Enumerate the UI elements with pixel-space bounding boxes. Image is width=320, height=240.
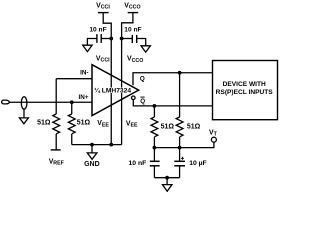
ground symbol (C2): [141, 46, 150, 52]
supply VCCO label: [124, 2, 140, 10]
wire GND stub: [91, 145, 93, 153]
supply VCCI bar: [98, 12, 109, 14]
wire VT rail: [154, 142, 214, 147]
wire Q node to R4: [179, 73, 181, 117]
polarity plus C4: [181, 157, 184, 159]
label VT: [209, 129, 218, 137]
comparator U1 triangle: [92, 65, 139, 116]
wire IN+ node to R2: [71, 102, 73, 114]
label device line2: [216, 89, 274, 96]
wire C3 bottom: [153, 166, 155, 178]
wire input line: [10, 101, 92, 103]
supply VCCO bar: [128, 12, 139, 14]
wire C2 right to ground: [137, 39, 146, 46]
terminal VT circle: [211, 137, 216, 142]
wire C3 top: [153, 148, 155, 162]
svg-text:10 nF: 10 nF: [129, 160, 147, 167]
wire VCCO pin line (node to VEE rail): [121, 39, 123, 145]
svg-text:DEVICE WITH: DEVICE WITH: [223, 81, 266, 88]
node IN+ junction: [70, 100, 74, 104]
wire C4 top: [179, 148, 181, 162]
wire C4 bottom: [179, 166, 181, 178]
resistor R4 51 Ohm: [176, 117, 183, 137]
capacitor C1 plates: [96, 34, 98, 43]
svg-text:¼ LMH7324: ¼ LMH7324: [94, 86, 131, 94]
node Q / R4: [178, 71, 182, 75]
wire ellipse to ground: [23, 109, 25, 118]
label 1/4 LMH7324: [94, 86, 131, 94]
label R2 51 Ohm: [77, 120, 91, 127]
node GND rail / VEE pin: [109, 143, 113, 147]
node bottom rail: [165, 176, 169, 180]
wire IN-: [56, 78, 92, 80]
label R3 51 Ohm: [161, 124, 175, 131]
pin label VEE (left): [97, 120, 109, 128]
ground symbol (GND): [87, 153, 97, 159]
wire Q tap: [133, 73, 213, 85]
resistor R1 51 Ohm: [53, 114, 60, 134]
svg-text:51Ω: 51Ω: [161, 124, 175, 131]
svg-text:51Ω: 51Ω: [37, 120, 51, 127]
node GND rail / gnd symbol: [90, 143, 94, 147]
pin label VCCO: [127, 56, 143, 64]
svg-text:10 µF: 10 µF: [189, 160, 207, 167]
capacitor C2 plates: [131, 35, 133, 43]
Qbar overline: [140, 96, 144, 98]
terminal VREF bar: [51, 149, 61, 151]
wire Qbar node to R3: [153, 106, 155, 117]
wire VCCI supply to node: [103, 13, 111, 39]
ground symbol (C1): [83, 45, 92, 51]
label GND: [84, 161, 100, 168]
label Qbar: [140, 98, 145, 105]
inversion bubble: [132, 96, 136, 100]
svg-text:RS(P)ECL INPUTS: RS(P)ECL INPUTS: [216, 89, 274, 96]
svg-text:51Ω: 51Ω: [187, 124, 201, 131]
device box: [213, 61, 278, 120]
svg-text:Q: Q: [140, 75, 145, 82]
node VCCI bypass junction: [109, 37, 113, 41]
svg-text:10 nF: 10 nF: [89, 27, 106, 34]
wire IN- to R1: [55, 79, 57, 114]
wire VCCO supply to node: [122, 13, 133, 39]
node VT rail / C3: [153, 146, 157, 150]
svg-text:51Ω: 51Ω: [77, 120, 91, 127]
label C3 10 nF: [129, 160, 147, 167]
ground symbol (caps): [163, 185, 172, 192]
label IN+: [79, 94, 89, 101]
resistor R2 51 Ohm: [68, 114, 75, 134]
node VCCO bypass junction: [120, 37, 124, 41]
wire Qbar tap: [133, 100, 212, 106]
resistor R3 51 Ohm: [151, 117, 158, 137]
wire R1 to VREF: [55, 134, 57, 150]
supply VCCI label: [96, 2, 110, 10]
wire bottom gnd stub: [166, 178, 168, 185]
capacitor C4 plates: [174, 160, 185, 162]
wire R3 to VT rail: [153, 137, 155, 148]
coax ellipse: [21, 97, 27, 110]
node Qbar / R3: [153, 104, 157, 108]
connector J1 (signal source plug): [2, 100, 10, 104]
svg-text:Q: Q: [140, 98, 145, 105]
svg-text:IN+: IN+: [79, 94, 89, 101]
label Q: [140, 75, 145, 82]
wire GND rail: [72, 144, 122, 146]
wire R4 to VT rail: [179, 137, 181, 148]
wire C1 left to ground: [87, 39, 97, 46]
svg-text:GND: GND: [84, 161, 100, 168]
label R1 51 Ohm: [37, 120, 51, 127]
svg-text:10 nF: 10 nF: [124, 27, 141, 34]
node VT rail / C4: [178, 146, 182, 150]
wire C1 right to node: [101, 38, 111, 40]
label C4 10 uF: [189, 160, 207, 167]
capacitor C1 10 nF label: [89, 27, 106, 34]
svg-text:IN-: IN-: [80, 70, 88, 77]
label device line1: [223, 81, 266, 88]
wire caps bottom rail: [154, 177, 179, 179]
pin label VEE (right): [126, 120, 138, 128]
ground symbol (input): [19, 118, 28, 124]
wire C2 left to node: [122, 38, 133, 40]
wire R2 to GND rail: [71, 134, 73, 145]
capacitor C2 10 nF label: [124, 27, 141, 34]
label IN-: [80, 70, 88, 77]
label VREF: [49, 158, 65, 166]
wire VCCI pin line (node to VEE rail): [110, 39, 112, 145]
label R4 51 Ohm: [187, 124, 201, 131]
pin label VCCI: [96, 55, 110, 63]
capacitor C3 plates: [150, 160, 160, 162]
